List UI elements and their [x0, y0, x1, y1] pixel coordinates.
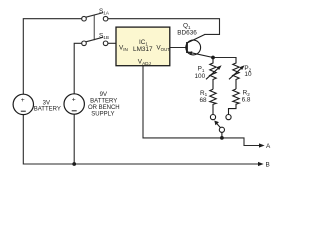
switch S2 selector contacts	[210, 115, 231, 133]
potentiometer P2	[229, 58, 245, 90]
label B2 9V BATTERY OR BENCH SUPPLY	[88, 92, 120, 118]
svg-text:100: 100	[195, 73, 206, 80]
svg-text:SUPPLY: SUPPLY	[91, 112, 114, 118]
svg-text:10: 10	[244, 71, 252, 78]
svg-text:+: +	[72, 97, 76, 104]
wire battery B1 negative to bottom rail	[23, 115, 259, 164]
gang link between S1A and S1B	[93, 15, 95, 40]
svg-text:6.8: 6.8	[242, 97, 251, 104]
wire top rail from S1A to Q1 collector	[108, 19, 220, 35]
switch S1B	[82, 37, 108, 45]
wire P1 top node to P2 top	[213, 57, 236, 59]
output B arrow	[258, 162, 270, 169]
wire battery B1 positive to switch S1A	[23, 19, 81, 95]
svg-text:68: 68	[200, 97, 208, 104]
wire battery B2 negative to bottom rail	[73, 114, 75, 164]
node emitter junction	[211, 56, 215, 60]
wire S2 pole to node	[221, 132, 223, 138]
resistor R1	[210, 89, 216, 114]
wire IC VADJ down and across to selector node	[143, 66, 261, 146]
op-amp U1: IC1 LM317 regulator box	[116, 27, 170, 66]
svg-text:+: +	[21, 97, 25, 104]
battery B1 3V	[13, 94, 33, 114]
svg-text:BD636: BD636	[177, 29, 197, 36]
potentiometer P1	[206, 58, 222, 90]
svg-text:9V: 9V	[100, 92, 107, 98]
svg-text:BATTERY: BATTERY	[34, 107, 61, 113]
svg-text:OR BENCH: OR BENCH	[88, 105, 120, 111]
switch S1A	[82, 13, 108, 21]
output A arrow	[259, 143, 271, 150]
svg-text:BATTERY: BATTERY	[90, 99, 117, 105]
node selector output junction	[220, 136, 224, 140]
svg-text:LM317: LM317	[133, 46, 153, 53]
transistor Q2 BD636	[186, 34, 213, 57]
label B1 3V BATTERY	[34, 100, 61, 112]
battery B2 9V	[64, 94, 84, 114]
switch S2 wiper arrow	[214, 121, 220, 129]
wire IC VOUT to Q1 base	[170, 47, 187, 49]
wire S1B to IC VIN	[108, 42, 116, 44]
node bottom rail junction	[72, 162, 76, 166]
svg-text:3V: 3V	[43, 100, 50, 106]
svg-text:A: A	[266, 143, 271, 150]
wire battery B2 positive to switch S1B	[74, 43, 81, 94]
resistor R2	[229, 89, 240, 115]
svg-text:B: B	[266, 162, 270, 169]
